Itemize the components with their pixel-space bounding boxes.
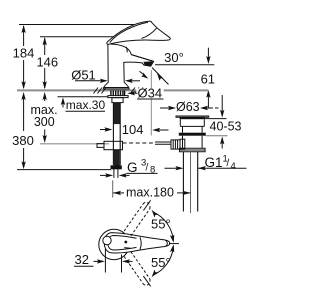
countertop surface (gray) bbox=[17, 89, 209, 91]
extension line spout-top level (146 top) bbox=[40, 36, 114, 38]
max.30 underline bbox=[66, 110, 106, 112]
mounting nut bbox=[112, 98, 123, 103]
pop-up linkage dashed rod bbox=[123, 142, 156, 144]
plan view escutcheon circle bbox=[99, 229, 129, 259]
waste flange skirt bbox=[180, 119, 204, 126]
32 right arrow bbox=[122, 259, 133, 263]
lower arc top arrowhead bbox=[170, 244, 175, 252]
G3/8 stub centerline bbox=[112, 180, 114, 197]
lever seam line bbox=[140, 237, 141, 249]
svg-text:380: 380 bbox=[12, 133, 34, 148]
svg-text:146: 146 bbox=[36, 55, 58, 70]
upper rotated lever (dashed) bbox=[124, 202, 150, 236]
svg-text:30°: 30° bbox=[164, 50, 184, 65]
svg-text:32: 32 bbox=[75, 252, 89, 267]
svg-text:104: 104 bbox=[122, 122, 144, 137]
dimension 184 vertical line bbox=[23, 26, 25, 88]
spout outlet projection line (gray) bbox=[150, 70, 152, 136]
d63 right arrow bbox=[200, 106, 219, 110]
waste body upper bbox=[183, 126, 203, 132]
dimension 146 top arrow bbox=[43, 37, 47, 45]
30 degree leg arrowhead bbox=[157, 72, 164, 80]
svg-text:55°: 55° bbox=[151, 217, 171, 232]
counter hatching left of faucet bbox=[94, 88, 107, 94]
linkage knob bbox=[171, 140, 180, 149]
svg-text:Ø63: Ø63 bbox=[176, 100, 200, 114]
svg-text:max.180: max.180 bbox=[126, 186, 174, 200]
label max.30 reference line bbox=[58, 96, 109, 98]
dimension 104 left arrow bbox=[100, 127, 112, 131]
svg-text:4: 4 bbox=[231, 161, 236, 172]
max.300 dimension line bbox=[43, 92, 47, 143]
plan view lever (solid) bbox=[104, 233, 170, 253]
supply pipe threaded upper section bbox=[113, 103, 120, 165]
svg-text:55°: 55° bbox=[151, 255, 171, 270]
svg-text:Ø51: Ø51 bbox=[71, 68, 96, 83]
plan view pivot circle bbox=[103, 236, 111, 244]
dimension 184 top arrow bbox=[21, 25, 25, 33]
waste o-ring band bbox=[179, 133, 206, 136]
spout aerator dark tip bbox=[144, 61, 154, 66]
dimension d51 left arrow bbox=[75, 79, 108, 83]
32 dimension extension lines bbox=[105, 249, 121, 273]
40-53 top tick bbox=[205, 118, 227, 120]
linkage rod solid part bbox=[155, 142, 172, 144]
d34 leader arrow to shank bbox=[127, 91, 137, 95]
svg-text:300: 300 bbox=[34, 115, 55, 129]
label G1 1/4 bbox=[205, 154, 236, 172]
waste flange dark underside bbox=[180, 117, 205, 119]
lower swing arc bbox=[153, 246, 174, 275]
G 3/8 stub tube bbox=[114, 169, 118, 178]
d34 underline bbox=[137, 98, 164, 100]
counter hatching right of faucet bbox=[131, 88, 144, 94]
waste flange top bbox=[176, 116, 209, 117]
waste body lower bbox=[183, 136, 203, 149]
svg-text:max.30: max.30 bbox=[66, 98, 106, 112]
cartridge cap detail bbox=[125, 47, 128, 53]
upper swing leg line bbox=[143, 200, 150, 210]
dimension 380 vertical line bbox=[23, 97, 25, 164]
32 underline bbox=[74, 265, 94, 267]
G1 1/4 right arrow with leader underline bbox=[198, 166, 247, 170]
dimension 146 vertical line bbox=[44, 38, 46, 88]
lever small line detail bbox=[124, 247, 130, 250]
lever tip cap line bbox=[166, 240, 168, 246]
G1 1/4 left arrow bbox=[165, 166, 184, 170]
svg-text:40-53: 40-53 bbox=[210, 120, 242, 134]
30 degree slanted leg bbox=[152, 68, 169, 85]
G3/8 diameter arrows bbox=[100, 173, 130, 177]
max.30 up arrow bbox=[61, 97, 65, 107]
lower swing leg line bbox=[143, 276, 150, 286]
dimension 184 bottom arrow bbox=[21, 81, 25, 89]
dimension d51 right arrow bbox=[125, 79, 140, 83]
32 left arrow bbox=[94, 259, 105, 263]
pop-up rod coupler on pipe bbox=[97, 141, 123, 149]
dimension 40-53 top tail bbox=[220, 95, 224, 118]
waste tailpipe bbox=[183, 152, 197, 212]
svg-text:Ø34: Ø34 bbox=[138, 86, 163, 101]
label G 3/8 bbox=[127, 158, 155, 176]
380 bottom arrow bbox=[21, 161, 25, 169]
30 degree reference line bbox=[155, 64, 214, 66]
40-53 bottom tick bbox=[206, 135, 228, 137]
d63 left arrow bbox=[160, 106, 176, 110]
knob clevis bbox=[180, 139, 185, 149]
tailpipe centerline gray bbox=[190, 152, 192, 213]
extension line lever-tip level (184 top) bbox=[19, 24, 134, 26]
svg-text:G1: G1 bbox=[205, 155, 223, 170]
dimension 104 right arrow bbox=[152, 128, 168, 132]
max.300 bottom reference line (gray) bbox=[40, 143, 109, 145]
dimension max.180 line bbox=[113, 191, 190, 195]
lower arc bottom arrowhead bbox=[152, 270, 158, 278]
svg-text:/: / bbox=[146, 163, 149, 174]
faucet lever handle (side view) bbox=[107, 21, 170, 44]
lever inner edge line bbox=[110, 22, 148, 42]
svg-text:/: / bbox=[227, 158, 230, 169]
supply pipe lower threaded texture bbox=[114, 150, 120, 166]
380 top arrow bbox=[21, 92, 25, 100]
svg-text:184: 184 bbox=[13, 46, 35, 61]
lever dot detail bbox=[124, 241, 127, 244]
G3/8 underline bbox=[127, 172, 158, 174]
faucet body and spout bbox=[103, 44, 153, 89]
label diameter 34 white backing bbox=[136, 88, 164, 98]
upper arc bottom arrowhead bbox=[170, 235, 175, 243]
shank washer plate bbox=[108, 96, 128, 98]
30 degree small left arrow bbox=[140, 71, 149, 78]
upper arc top arrowhead bbox=[152, 210, 158, 218]
dimension 61 upper tail and arrow bbox=[206, 48, 210, 64]
dimension 146 bottom arrow bbox=[43, 81, 47, 89]
G 3/8 connection nut bbox=[111, 166, 121, 169]
lever tail inner line bbox=[142, 28, 157, 38]
dimension 61 lower arrow and tail below counter bbox=[206, 90, 210, 109]
40-53 bottom arrow bbox=[220, 136, 224, 148]
svg-text:61: 61 bbox=[201, 72, 215, 87]
upper swing arc bbox=[153, 212, 174, 241]
lever inner contour bbox=[108, 236, 137, 251]
faucet base plinth bbox=[103, 88, 130, 90]
380 bottom extension line bbox=[17, 169, 111, 171]
threaded shank below counter bbox=[111, 90, 125, 95]
lower rotated lever (dashed) bbox=[124, 252, 150, 286]
waste bottom union bbox=[180, 148, 206, 151]
spout top edge bbox=[131, 55, 153, 62]
lever axis extension line bbox=[169, 243, 179, 245]
